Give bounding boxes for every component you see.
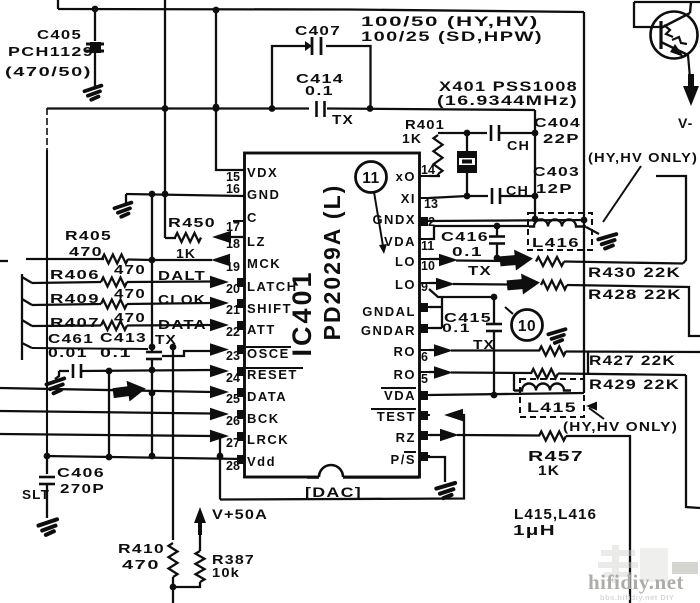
- svg-text:R427 22K: R427 22K: [589, 352, 676, 368]
- bus tap TX: [22, 343, 32, 348]
- pin pad 8: [419, 303, 428, 312]
- overline OSCE: [246, 346, 291, 348]
- svg-text:OSCE: OSCE: [247, 346, 290, 361]
- svg-text:SLT: SLT: [22, 488, 50, 502]
- svg-text:L415: L415: [527, 399, 577, 415]
- wire TX row to OSCE: [162, 351, 210, 356]
- wire BCK row from left: [0, 411, 211, 414]
- resistor R428: [541, 281, 567, 290]
- wire GNDAR pin 7 stub: [429, 327, 442, 329]
- wire vertical to pin 15: [216, 10, 244, 170]
- svg-text:470: 470: [114, 262, 146, 277]
- svg-text:VDX: VDX: [247, 165, 278, 180]
- svg-text:100/50 (HY,HV): 100/50 (HY,HV): [361, 13, 539, 29]
- svg-text:bbs.hifidiy.net DIY: bbs.hifidiy.net DIY: [600, 593, 674, 602]
- capacitor C414 (in rail): [315, 101, 318, 117]
- svg-text:R410: R410: [118, 541, 165, 556]
- wire right edge V- feed: [686, 375, 700, 508]
- ground near L416: [598, 234, 618, 249]
- ground right of circle 10: [548, 329, 567, 343]
- wire bottom join: [173, 582, 200, 587]
- capacitor C407 loop box: [272, 46, 371, 109]
- callout arrow to L415 box: [589, 408, 604, 419]
- wire C461 to ground: [55, 371, 59, 379]
- arrow out of RZ pin 2: [429, 434, 441, 436]
- wire pin9 decouple branch: [429, 289, 494, 297]
- svg-text:R429 22K: R429 22K: [589, 376, 680, 392]
- arrow into RESET pin 24: [210, 365, 229, 377]
- big arrow on DATA row: [112, 378, 148, 403]
- pin 6 stub: [420, 349, 430, 351]
- overline S of P/S: [404, 451, 416, 453]
- svg-text:LO: LO: [395, 254, 416, 269]
- svg-text:R407: R407: [50, 315, 100, 330]
- wire TEST loop: [220, 415, 464, 500]
- ground for pin 16: [114, 203, 133, 218]
- capacitor C416: [494, 223, 501, 230]
- svg-text:GNDAR: GNDAR: [361, 323, 416, 338]
- arrow into SHIFT pin 21: [210, 297, 229, 309]
- wire emitter down: [688, 55, 690, 78]
- svg-text:TX: TX: [468, 263, 492, 278]
- pin pad 23: [237, 345, 245, 354]
- wire R405 to MCK junction: [128, 258, 152, 261]
- svg-text:XI: XI: [401, 191, 416, 206]
- overline RESET: [246, 367, 303, 369]
- bus tap CLOK: [22, 299, 32, 305]
- svg-text:16: 16: [226, 182, 240, 196]
- svg-text:BCK: BCK: [247, 411, 280, 426]
- wire DALT row: [32, 282, 211, 284]
- wire DATA row: [32, 325, 211, 326]
- wire VDA pin 4 row: [429, 393, 584, 395]
- callout line to HY,HV note: [603, 166, 641, 222]
- wire top rail: [58, 9, 584, 12]
- wire pin 16 GND row: [126, 194, 244, 196]
- ground for C406: [38, 519, 59, 535]
- node Vdd x109: [106, 454, 113, 461]
- svg-text:1K: 1K: [402, 131, 422, 146]
- svg-text:CH: CH: [507, 138, 530, 153]
- svg-text:TX: TX: [155, 332, 177, 347]
- wire x173 vertical to R410: [172, 347, 174, 540]
- svg-text:10: 10: [421, 259, 435, 273]
- bus tap DALT: [22, 277, 32, 283]
- svg-text:GND: GND: [247, 187, 280, 202]
- svg-text:0.1: 0.1: [442, 321, 471, 335]
- node Vdd x152: [149, 453, 156, 460]
- wire LO2 to right: [567, 285, 700, 336]
- wire vertical x109: [108, 371, 110, 457]
- pin pad 1: [419, 452, 428, 461]
- circled 10 note: [512, 310, 543, 341]
- svg-text:DATA: DATA: [158, 317, 207, 332]
- capacitor C413: [146, 351, 162, 354]
- node cap return/GNDX: [532, 216, 539, 223]
- wire crystal cap return vertical: [534, 110, 536, 220]
- node top rail / C405 junction: [92, 6, 99, 13]
- svg-text:[DAC]: [DAC]: [305, 484, 362, 500]
- ground for C461: [46, 378, 66, 394]
- resistor R401: [434, 135, 443, 174]
- svg-text:GNDX: GNDX: [372, 212, 416, 227]
- wire right hook R430: [656, 176, 686, 264]
- wire GNDAL pin 8 stub: [429, 306, 442, 308]
- svg-text:470: 470: [114, 310, 146, 325]
- wire RO pin 5 row: [429, 371, 436, 373]
- svg-text:RZ: RZ: [396, 430, 416, 445]
- wire C461/RESET row: [81, 370, 211, 371]
- resistor R430: [536, 257, 564, 266]
- svg-text:GNDAL: GNDAL: [362, 304, 416, 319]
- node rail2 x165 junction: [162, 105, 169, 112]
- dashed box L416: [528, 213, 592, 250]
- wire Vdd row: [44, 456, 244, 459]
- svg-text:CLOK: CLOK: [158, 292, 206, 307]
- svg-text:270P: 270P: [60, 481, 105, 496]
- svg-text:(470/50): (470/50): [5, 64, 92, 79]
- svg-text:R428 22K: R428 22K: [588, 286, 682, 302]
- node RESET row x152: [149, 367, 156, 374]
- wire transistor base feed: [634, 2, 663, 27]
- pin pad 12: [419, 217, 428, 226]
- svg-text:14: 14: [421, 163, 435, 177]
- watermark glyph blob: [598, 545, 668, 583]
- pin pad 28: [237, 455, 245, 464]
- svg-text:LATCH: LATCH: [247, 279, 298, 294]
- wire R405 row from left: [0, 260, 8, 262]
- node crystal/XI junction: [464, 193, 471, 200]
- transistor Q (V- driver): [651, 12, 698, 59]
- node Vdd x47: [44, 453, 51, 460]
- wire TX row: [32, 348, 148, 349]
- svg-text:DATA: DATA: [247, 389, 287, 404]
- svg-text:V-: V-: [678, 115, 693, 131]
- resistor R450: [165, 237, 176, 239]
- pin 11 stub: [420, 238, 430, 240]
- node C461 row x109: [106, 368, 113, 375]
- capacitor C407 symbol: [311, 37, 314, 55]
- wire XI pin 13: [429, 196, 488, 198]
- wire DATA pin25 row from left: [0, 388, 211, 392]
- svg-text:100/25 (SD,HPW): 100/25 (SD,HPW): [361, 28, 543, 44]
- svg-text:11: 11: [362, 170, 379, 187]
- pin pad 25: [237, 388, 245, 397]
- resistor R406: [101, 278, 127, 287]
- svg-text:xO: xO: [396, 169, 416, 184]
- svg-text:VDA: VDA: [384, 234, 416, 249]
- wire left bus vertical: [21, 274, 23, 360]
- circled 11 note: [356, 162, 387, 193]
- pin 8 stub: [420, 306, 430, 308]
- svg-text:SHIFT: SHIFT: [247, 301, 292, 316]
- wire L416 to ground: [586, 227, 599, 234]
- node top rail / pin15 branch junction: [213, 7, 220, 14]
- watermark small CJK: [672, 562, 698, 574]
- pin 1 stub: [420, 455, 430, 457]
- svg-text:C: C: [247, 210, 258, 225]
- svg-text:22P: 22P: [543, 131, 580, 146]
- capacitor C461: [59, 370, 69, 372]
- svg-text:13: 13: [424, 197, 438, 211]
- svg-text:R401: R401: [405, 117, 445, 132]
- svg-text:0.01: 0.01: [48, 346, 88, 360]
- arrow to V- supply: [683, 74, 699, 106]
- capacitor C406: [46, 456, 48, 474]
- wire gnda vertical link: [441, 297, 443, 328]
- inductor L416: [529, 220, 586, 227]
- svg-text:470: 470: [122, 557, 160, 572]
- ground for C405: [84, 86, 103, 101]
- pin 4 stub: [420, 394, 430, 396]
- wire left vertical x47: [46, 108, 48, 150]
- pin pad 22: [237, 321, 245, 330]
- crystal X401: [466, 133, 468, 152]
- svg-text:V+50A: V+50A: [212, 506, 268, 522]
- pin 9 stub: [420, 282, 430, 284]
- node lower rail x271 (C407 box): [269, 105, 276, 112]
- pin 2 stub: [420, 434, 430, 436]
- arrow out of pin 5: [434, 366, 453, 378]
- svg-text:C406: C406: [57, 465, 105, 480]
- svg-text:RO: RO: [394, 367, 417, 382]
- node C404 right: [532, 130, 539, 137]
- arrow out of pin 10: [439, 254, 458, 266]
- wire right vertical rail x=584: [583, 12, 585, 393]
- svg-text:Vdd: Vdd: [247, 454, 276, 469]
- svg-text:12P: 12P: [536, 181, 573, 196]
- IC U401 body: [245, 153, 420, 477]
- svg-text:MCK: MCK: [247, 256, 281, 271]
- dashed box L415: [520, 379, 584, 417]
- node GND row x165: [162, 191, 169, 198]
- wire pin 17 stub: [233, 220, 244, 222]
- svg-text:TEST: TEST: [377, 409, 416, 424]
- svg-text:C404: C404: [534, 115, 581, 130]
- wire CLOK row: [32, 303, 211, 305]
- resistor R429: [531, 369, 558, 378]
- wire GND drop: [125, 194, 127, 203]
- resistor R410: [169, 543, 178, 577]
- svg-text:0.1: 0.1: [452, 244, 483, 259]
- arrow into LATCH pin 20: [210, 276, 229, 288]
- ground for P/S: [436, 483, 457, 499]
- capacitor C403: [491, 188, 494, 204]
- svg-text:PCH1129: PCH1129: [8, 44, 94, 59]
- svg-text:L415,L416: L415,L416: [514, 506, 597, 523]
- svg-text:LRCK: LRCK: [247, 432, 289, 447]
- node GNDX/rail: [581, 217, 588, 224]
- callout line from 11 to LO: [374, 192, 383, 246]
- svg-text:RESET: RESET: [247, 367, 298, 382]
- node MCK junction: [149, 257, 156, 264]
- pin pad 27: [237, 432, 245, 441]
- node lower rail x216: [213, 105, 220, 112]
- resistor R407: [101, 321, 127, 330]
- svg-text:DALT: DALT: [158, 268, 206, 283]
- svg-text:C413: C413: [100, 330, 147, 345]
- wire P/S pin 1 to ground: [421, 457, 445, 482]
- overline TEST: [371, 408, 416, 410]
- svg-text:1K: 1K: [538, 462, 560, 478]
- svg-text:0.1: 0.1: [305, 83, 334, 98]
- arrow into DATA pin 25: [210, 386, 229, 398]
- svg-text:1μH: 1μH: [513, 522, 556, 539]
- resistor R387: [199, 535, 201, 551]
- svg-text:11: 11: [421, 239, 434, 253]
- wire L415 left link up: [513, 374, 515, 392]
- svg-text:(HY,HV ONLY): (HY,HV ONLY): [588, 150, 698, 165]
- big arrow LO2: [506, 272, 541, 296]
- svg-text:R406: R406: [50, 267, 100, 282]
- arrow V+50A supply: [194, 507, 206, 535]
- svg-text:TX: TX: [332, 112, 354, 127]
- wire lower rail y=107: [47, 107, 309, 109]
- svg-text:P/S: P/S: [391, 452, 416, 467]
- pin pad 24: [237, 367, 245, 376]
- svg-text:hifidiy.net: hifidiy.net: [588, 570, 684, 594]
- pin 12 stub: [420, 220, 430, 222]
- pin pad 20: [237, 278, 245, 287]
- arrow into ATT pin 22: [210, 319, 229, 331]
- svg-text:R405: R405: [65, 228, 112, 243]
- wire vertical x152 (GND to C413 to Vdd): [151, 194, 153, 352]
- pin pad 21: [237, 299, 245, 308]
- svg-text:R430 22K: R430 22K: [588, 264, 681, 280]
- pin 14 stub: [420, 175, 430, 177]
- inductor L415: [514, 384, 571, 391]
- node rail2 x216 junction: [213, 104, 220, 111]
- svg-text:LZ: LZ: [247, 234, 266, 249]
- pin pad 2: [419, 431, 428, 440]
- wire RO1 to right: [566, 350, 700, 353]
- wire XO pin 14: [429, 175, 440, 177]
- big arrow LO1: [499, 248, 534, 272]
- svg-text:ATT: ATT: [247, 322, 276, 337]
- overline VDA pin4: [381, 387, 416, 389]
- resistor R457: [539, 432, 566, 441]
- wire VDA pin 11 branch: [429, 226, 529, 239]
- wire R427-R429 vertical link: [587, 352, 589, 374]
- svg-text:470: 470: [114, 286, 146, 301]
- arrow out of pin 6: [434, 344, 453, 356]
- pin 5 stub: [420, 371, 430, 373]
- svg-text:CH: CH: [506, 183, 529, 198]
- pin 7 stub: [420, 327, 430, 329]
- wire long vertical x=165: [164, 0, 166, 238]
- svg-text:470: 470: [69, 244, 103, 259]
- pin 13 stub: [420, 197, 430, 199]
- svg-text:1K: 1K: [176, 246, 196, 261]
- wire top-left vertical stub: [57, 0, 59, 9]
- svg-text:(16.9344MHz): (16.9344MHz): [437, 92, 578, 108]
- svg-text:5: 5: [421, 372, 428, 386]
- pin pad 7: [419, 324, 428, 333]
- node lower rail x370 (C407 box): [367, 105, 374, 112]
- resistor R405: [102, 255, 128, 264]
- svg-text:L416: L416: [532, 235, 580, 250]
- arrow into R450 from pin 18: [212, 231, 231, 243]
- pin pad 4: [419, 391, 428, 400]
- wire LRCK row from left: [0, 434, 211, 436]
- node GND row x152: [149, 191, 156, 198]
- resistor R427: [539, 347, 566, 356]
- wire LO1 to right: [564, 262, 683, 264]
- wire RO pin 6 row: [429, 349, 436, 351]
- svg-text:R409: R409: [50, 291, 100, 306]
- pin 10 stub: [420, 258, 430, 260]
- wire GNDX pin 12 row: [429, 220, 584, 221]
- wire MCK row: [152, 259, 212, 261]
- arrow into BCK pin 26: [210, 408, 229, 420]
- arrow out of pin 9: [436, 278, 455, 290]
- capacitor C405: [94, 9, 96, 41]
- wire top edge right: [634, 1, 700, 3]
- pin 3 stub: [420, 414, 430, 416]
- bus tap DATA: [22, 320, 32, 326]
- svg-text:(HY,HV ONLY): (HY,HV ONLY): [563, 419, 678, 434]
- pin pad 3: [419, 411, 428, 420]
- svg-text:10: 10: [518, 318, 536, 335]
- svg-text:PD2029A (L): PD2029A (L): [319, 184, 345, 341]
- arrow into LRCK pin 27: [210, 430, 229, 442]
- svg-text:C461: C461: [48, 331, 94, 346]
- svg-text:C407: C407: [295, 23, 341, 38]
- wire LO pin 10 row: [429, 258, 441, 260]
- wire LO pin 9 row: [429, 282, 438, 284]
- wire RZ row to bottom right: [566, 436, 630, 603]
- svg-text:RO: RO: [394, 344, 417, 359]
- arrow into OSCE pin 23: [210, 343, 229, 355]
- svg-text:6: 6: [421, 350, 428, 364]
- svg-text:C405: C405: [37, 27, 82, 42]
- svg-text:R450: R450: [168, 215, 216, 230]
- svg-text:VDA: VDA: [384, 388, 416, 403]
- arrow into TEST pin 3: [444, 409, 463, 421]
- wire LRCK-Vdd link x220: [219, 437, 221, 500]
- node C403 right: [532, 193, 539, 200]
- svg-text:0.1: 0.1: [100, 346, 132, 360]
- pin pad 26: [237, 410, 245, 419]
- node Vdd x220: [217, 453, 224, 460]
- wire R429 to right: [558, 374, 686, 376]
- svg-text:10k: 10k: [212, 565, 240, 580]
- svg-text:C416: C416: [441, 229, 489, 244]
- svg-text:C403: C403: [533, 164, 580, 179]
- capacitor C404: [467, 132, 487, 134]
- resistor R409: [101, 300, 127, 309]
- node R401/crystal top: [464, 130, 471, 137]
- svg-text:LO: LO: [395, 277, 416, 292]
- arrow into MCK pin 19: [211, 254, 230, 266]
- capacitor C415: [493, 297, 495, 324]
